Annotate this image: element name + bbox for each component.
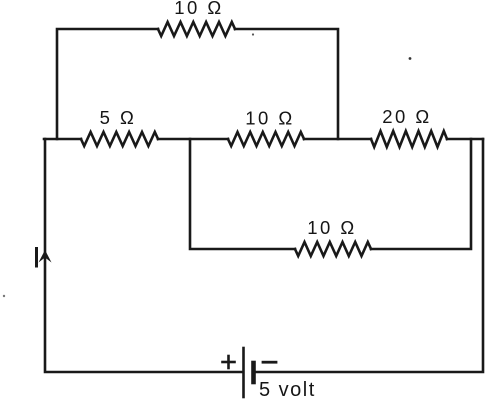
svg-text:5 Ω: 5 Ω <box>100 107 137 128</box>
svg-text:10 Ω: 10 Ω <box>174 0 224 18</box>
svg-text:5 volt: 5 volt <box>259 379 316 401</box>
svg-text:20 Ω: 20 Ω <box>382 106 432 127</box>
svg-text:10 Ω: 10 Ω <box>245 108 295 129</box>
svg-text:10 Ω: 10 Ω <box>307 217 357 238</box>
